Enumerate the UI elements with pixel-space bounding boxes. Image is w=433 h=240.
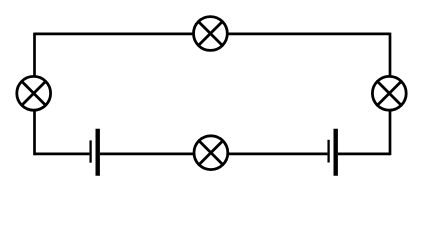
wire right lower segment [389, 110, 392, 155]
battery cell (left), short negative plate [89, 140, 91, 162]
wire top-left segment [35, 33, 194, 36]
wire left upper segment [33, 33, 36, 77]
wire bottom segment 2 [100, 153, 194, 156]
wire bottom segment 3 [228, 153, 328, 156]
lamp (bottom) [194, 136, 228, 170]
wire left lower segment [33, 110, 36, 155]
wire right upper segment [389, 33, 392, 77]
wire bottom segment 1 [35, 153, 90, 156]
battery cell (left), long positive plate [95, 129, 99, 176]
lamp (left) [17, 76, 51, 110]
lamp (top) [194, 17, 228, 51]
wire top-right segment [227, 33, 390, 36]
battery cell (right), short negative plate [327, 140, 329, 163]
battery cell (right), long positive plate [334, 129, 338, 176]
lamp (right) [372, 76, 406, 110]
wire bottom segment 4 [338, 153, 390, 156]
